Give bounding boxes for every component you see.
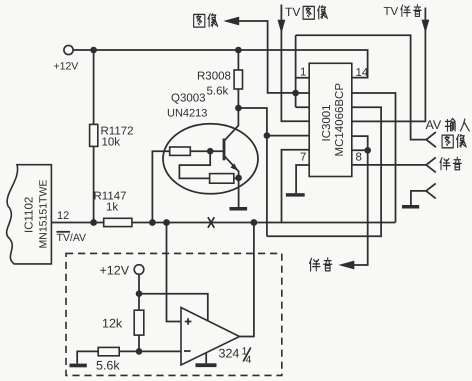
node rail-R3008 <box>235 47 242 54</box>
wire collector node to pin 5 via vertical x267 <box>238 108 267 236</box>
wire R3008 branch <box>237 50 239 108</box>
wire control line pin12 TV/AV <box>51 222 395 224</box>
svg-text:1: 1 <box>300 67 306 79</box>
wire pin 7 to ground <box>296 165 309 193</box>
dashed modification box <box>66 253 282 375</box>
svg-text:12k: 12k <box>102 317 123 331</box>
wire R1172 branch <box>93 50 95 223</box>
node divider <box>136 348 143 355</box>
resistor R base (internal) <box>170 147 191 155</box>
svg-text:R3008: R3008 <box>197 71 231 83</box>
wire pin 13 to control line <box>352 93 396 222</box>
wire AV 图像 outer loop <box>296 35 427 139</box>
svg-text:TV/AV: TV/AV <box>57 232 87 244</box>
svg-text:324: 324 <box>219 347 240 361</box>
svg-text:5.6k: 5.6k <box>96 359 120 373</box>
wire non-inverting input from control line <box>167 223 182 322</box>
node base <box>207 148 214 155</box>
svg-text:+12V: +12V <box>100 264 130 278</box>
node pin5 tap <box>264 132 271 139</box>
wire pin 10 jumper to pin 9 node <box>352 136 368 150</box>
svg-text:8: 8 <box>356 152 362 164</box>
label AV伴音 <box>440 157 461 170</box>
wire base resistor line <box>152 151 222 222</box>
svg-text:14: 14 <box>356 67 369 79</box>
svg-text:UN4213: UN4213 <box>167 108 207 120</box>
svg-text:MC14066BCP: MC14066BCP <box>334 83 346 157</box>
node pins 9-10 伴音 out <box>364 147 371 154</box>
svg-text:+12V: +12V <box>54 61 79 73</box>
svg-text:TV: TV <box>285 5 300 19</box>
transistor Q3003 envelope <box>163 124 258 194</box>
wire pin 8 to AV 伴音 <box>352 164 426 166</box>
transistor collector <box>224 108 238 141</box>
svg-text:Q3003: Q3003 <box>171 93 206 105</box>
resistor R1147 <box>104 218 132 226</box>
node base branch <box>149 219 156 226</box>
label AV图像 <box>442 135 466 148</box>
overline TV <box>57 231 71 233</box>
ground op-amp <box>196 363 217 367</box>
connector bracket AV 图像 <box>426 132 436 147</box>
wire op-amp power <box>139 294 208 322</box>
wire 图像 output line <box>239 21 296 93</box>
resistor R base-emitter (internal) <box>210 174 234 184</box>
wire AV ground <box>411 191 426 205</box>
resistor R3008 <box>234 70 242 89</box>
node +12V-power <box>136 290 143 297</box>
wire 12k divider chain <box>138 274 140 351</box>
connector bracket AV ground <box>426 183 436 198</box>
wire 5.6k to ground <box>77 351 139 363</box>
ground AV connector <box>402 205 419 209</box>
svg-text:MN15151TWE: MN15151TWE <box>38 180 50 249</box>
plus mark <box>185 318 192 325</box>
transistor Q3003 base bar <box>223 139 226 161</box>
arrow 图像 output <box>223 17 239 26</box>
arrow 伴音 output <box>338 261 354 270</box>
minus mark <box>184 350 191 352</box>
wire inverting input <box>139 350 181 352</box>
wire pin1 vertical with pin2 pin3 stubs <box>296 35 310 107</box>
ground 5.6k <box>70 364 87 368</box>
X cut mark <box>208 217 214 228</box>
svg-text:12: 12 <box>57 210 69 222</box>
label 图像 output <box>194 14 218 27</box>
wire base-emitter jog <box>179 151 238 178</box>
node opamp output branch <box>251 219 258 226</box>
op-amp U 324 1/4 <box>181 308 240 366</box>
svg-text:AV: AV <box>426 118 442 132</box>
wire op-amp ground stem <box>205 353 207 364</box>
svg-text:7: 7 <box>300 152 306 164</box>
wire pin 6 to control line <box>282 150 310 223</box>
svg-text:IC1102: IC1102 <box>24 197 36 233</box>
node rail-R1172 <box>90 47 97 54</box>
connector bracket AV 伴音 <box>426 157 436 172</box>
svg-text:4: 4 <box>246 354 252 366</box>
resistor 5.6k <box>98 347 119 355</box>
arrow TV伴音 <box>422 20 430 33</box>
svg-text:IC3001: IC3001 <box>321 104 333 141</box>
emitter arrowhead <box>230 163 238 171</box>
node 图像/pin2 <box>292 90 299 97</box>
wire pin 9 stub <box>352 149 368 151</box>
wire TV图像 input to pin 4 <box>281 5 309 122</box>
+12V supply terminal <box>64 45 73 54</box>
resistor R1172 <box>90 124 98 146</box>
wire line B to pin 12 <box>267 107 381 236</box>
svg-text:TV: TV <box>384 6 399 18</box>
wire pin 5 stub <box>267 135 309 137</box>
svg-text:10k: 10k <box>102 136 121 148</box>
wire TV伴音 input to pin 11 <box>352 8 426 122</box>
wire +12V rail to pin 14 of IC3001 <box>73 50 367 78</box>
arrow TV图像 <box>278 20 286 34</box>
IC1102 box with torn left edge <box>7 165 52 264</box>
node opamp input branch <box>163 219 170 226</box>
IC3001 box <box>309 63 352 176</box>
wire 伴音 output <box>354 150 368 265</box>
transistor emitter <box>224 156 238 207</box>
node emitter <box>235 175 242 182</box>
ground pin 7 <box>286 193 305 196</box>
+12V terminal in box <box>134 265 144 275</box>
resistor 12k <box>134 310 144 335</box>
svg-text:1k: 1k <box>106 202 118 214</box>
label 伴音 output <box>310 258 332 271</box>
node R1172-line <box>90 219 97 226</box>
wire op-amp output to control line <box>240 223 254 337</box>
ground emitter <box>230 207 248 211</box>
svg-text:5.6k: 5.6k <box>207 86 229 98</box>
node collector-R3008 <box>235 105 242 112</box>
